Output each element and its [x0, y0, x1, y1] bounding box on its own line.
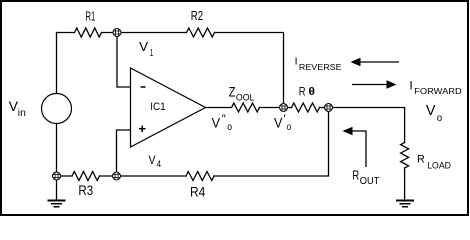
svg-text:I: I: [295, 55, 298, 67]
svg-text:OOL: OOL: [236, 92, 255, 102]
svg-text:V: V: [212, 114, 221, 130]
svg-text:in: in: [18, 108, 26, 119]
svg-text:4: 4: [157, 159, 162, 169]
svg-text:R: R: [417, 154, 425, 166]
svg-text:R2: R2: [191, 8, 203, 23]
resistor R2: [187, 28, 215, 37]
op-amp inverting input minus sign: [141, 86, 146, 88]
ground right: [396, 201, 414, 207]
svg-text:R: R: [352, 167, 359, 182]
svg-text:V: V: [274, 114, 283, 130]
svg-text:IC1: IC1: [150, 101, 166, 113]
resistor R4: [186, 172, 214, 181]
wire Zool to node Vprime: [260, 107, 284, 109]
wire top left horizontal: [57, 32, 75, 34]
node A junction: [113, 29, 121, 37]
node C junction: [325, 104, 333, 112]
svg-text:Z: Z: [229, 84, 236, 100]
svg-text:V: V: [426, 102, 436, 119]
wire Rtheta to node C: [320, 107, 329, 109]
resistor Rtheta: [292, 103, 320, 112]
wire left vertical lower: [56, 124, 58, 177]
wire R4 to bottom right corner up to node C: [214, 108, 329, 177]
svg-text:FORWARD: FORWARD: [414, 86, 462, 96]
wire left vertical upper: [56, 33, 58, 94]
wire node D up to non-inverting input: [117, 130, 131, 176]
svg-text:R3: R3: [78, 182, 93, 198]
arrow Iforward (pointing right): [352, 80, 397, 88]
wire bottom left: [57, 175, 73, 177]
svg-text:V: V: [149, 153, 156, 167]
svg-text:OUT: OUT: [360, 176, 380, 187]
wire node D to left ground: [56, 176, 58, 201]
wire R3 to node D: [100, 175, 187, 177]
wire node A down to inverting input: [117, 33, 131, 88]
ground left: [48, 201, 66, 207]
svg-text:V: V: [139, 39, 148, 54]
resistor R3: [72, 172, 100, 181]
wire node C to Rload corner: [329, 108, 405, 143]
op-amp U1 triangle: [131, 68, 206, 147]
resistor R1: [75, 28, 102, 37]
wire R1 to node A: [102, 32, 187, 34]
resistor Zool: [232, 103, 260, 112]
svg-text:1: 1: [150, 48, 154, 59]
svg-text:o: o: [227, 122, 232, 133]
wire Rload to ground: [404, 168, 406, 201]
svg-text:R: R: [299, 84, 306, 98]
node D junction: [113, 172, 121, 180]
arrow Rout (L-shaped pointing left): [343, 127, 367, 167]
voltage source Vin: [42, 94, 72, 124]
svg-text:″: ″: [222, 113, 226, 125]
arrow Ireverse (pointing left): [351, 58, 400, 66]
svg-text:R4: R4: [190, 184, 205, 200]
svg-text:LOAD: LOAD: [427, 161, 451, 172]
svg-text:′: ′: [284, 113, 286, 125]
svg-text:I: I: [409, 78, 412, 92]
svg-text:θ: θ: [308, 86, 315, 98]
resistor RLOAD: [401, 143, 409, 169]
svg-text:R1: R1: [86, 8, 96, 23]
node Vprime junction: [280, 104, 288, 112]
svg-text:REVERSE: REVERSE: [299, 62, 342, 72]
wire R2 to right corner and down to node Vprime: [215, 33, 284, 108]
op-amp non-inverting input plus sign: [139, 126, 146, 132]
node B junction (Vin bottom): [53, 172, 61, 180]
wire op-amp output to Zool: [206, 107, 232, 109]
svg-text:o: o: [437, 113, 443, 124]
wire node Vprime to Rtheta: [284, 107, 292, 109]
svg-text:o: o: [287, 122, 292, 133]
